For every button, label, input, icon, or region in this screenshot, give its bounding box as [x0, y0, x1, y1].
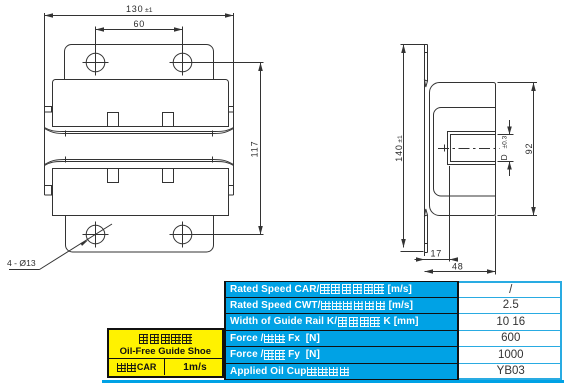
table header row 4 [224, 331, 459, 348]
side tab lower-left [45, 186, 52, 196]
yellow merged cell [109, 330, 222, 360]
liner upper lip line [45, 128, 234, 132]
svg-text:92: 92 [524, 143, 534, 155]
backplate top end [425, 45, 428, 53]
svg-text:17: 17 [431, 249, 443, 259]
backplate bottom chamfer [425, 209, 428, 216]
svg-text:60: 60 [134, 19, 146, 29]
lower body block [53, 169, 229, 216]
extension line 48 right (body edge extended) [495, 216, 497, 275]
tick marks lower flange [65, 157, 67, 163]
table value row 5 [459, 347, 563, 364]
backplate left edge [424, 45, 426, 257]
dimension 48 line [425, 271, 496, 273]
lower block tab 2 [163, 169, 174, 183]
upper block tab 1 [108, 113, 119, 127]
backplate bottom end [425, 244, 428, 253]
dimension 60 arrows [96, 27, 183, 32]
extension 92 top [498, 82, 538, 84]
table header row 5 [224, 347, 459, 364]
dimension 92 line [533, 83, 535, 216]
dimension 140 line [403, 45, 405, 248]
bottom mounting plate [66, 216, 214, 253]
shoe body [430, 83, 496, 216]
table header row 6 [224, 364, 459, 381]
table header row 1 [224, 281, 459, 298]
svg-text:4 - Ø13: 4 - Ø13 [7, 258, 36, 268]
side tab upper-right [229, 107, 234, 113]
hole bottom-right [173, 225, 192, 244]
svg-text:140: 140 [394, 144, 404, 161]
svg-text:±1: ±1 [397, 135, 404, 143]
dimension 60 line [96, 29, 183, 31]
dim D ext top arrow [509, 120, 511, 135]
side tab upper-left [45, 107, 52, 113]
svg-text:117: 117 [250, 141, 260, 158]
dimension 48 arrows [425, 269, 496, 274]
dimension 117 arrows [258, 63, 263, 235]
extension 92 bottom (body bottom extended) [498, 215, 538, 217]
liner lower lip line [45, 162, 234, 166]
slot inner [451, 135, 496, 162]
leader from top-right hole to 117 dim [183, 62, 264, 64]
dimension 117 line [260, 63, 262, 235]
dimension 92 arrows [531, 83, 536, 216]
leader 4-d13 underline [9, 269, 40, 271]
table value row 2 [459, 298, 563, 315]
leader from bottom-right hole to 117 dim [183, 234, 264, 236]
liner C outer [434, 108, 496, 197]
svg-text:D: D [499, 154, 509, 160]
hole top-right [173, 53, 192, 72]
table value row 6 [459, 364, 563, 381]
leader 4-d13 arrow [80, 240, 88, 246]
top mounting plate [65, 45, 214, 80]
svg-text:±0.3: ±0.3 [502, 135, 509, 148]
backplate right edge bottom segment [427, 216, 429, 253]
upper body block [53, 80, 229, 127]
dim D ext bottom arrow [509, 162, 511, 177]
table header row 3 [224, 314, 459, 331]
hole centerline extensions from 60 dim [95, 27, 97, 76]
extension top 140 [401, 44, 425, 46]
liner lower edge line [45, 160, 234, 165]
table value row 3 [459, 314, 563, 331]
table value row 4 [459, 331, 563, 348]
right outer edge / extension line [233, 13, 235, 195]
yellow cell CAR [109, 359, 165, 375]
left outer edge / extension line [44, 13, 46, 195]
centerline cross tick [444, 145, 446, 152]
upper block tab 2 [163, 113, 174, 127]
leader 4-d13 [40, 224, 113, 270]
hole top-left [86, 53, 105, 72]
extension bottom 140 [401, 251, 424, 253]
svg-text:48: 48 [452, 262, 464, 272]
hole bottom-left [86, 225, 105, 244]
dimension 17 line with outside arrows [415, 259, 458, 261]
table header row 2 [224, 298, 459, 315]
lower block tab 1 [108, 169, 119, 183]
liner upper edge line [45, 129, 234, 134]
bottom cyan strip [102, 380, 564, 383]
dimension 130 arrows [45, 13, 234, 18]
backplate right edge top segment [427, 45, 429, 82]
yellow cell 1m/s [165, 359, 226, 375]
side tab lower-right [229, 186, 234, 196]
backplate top chamfer [425, 80, 428, 87]
centerline dash-dot [438, 148, 500, 150]
tick marks upper flange [65, 131, 67, 137]
svg-text:±1: ±1 [145, 7, 153, 14]
yellow table [107, 328, 224, 378]
slot outer [448, 132, 496, 165]
dim D extension lines [498, 134, 514, 136]
table value row 1 [459, 281, 563, 298]
dimension 140 arrows [401, 45, 406, 248]
extension line 17 right [449, 166, 451, 262]
svg-text:130: 130 [126, 4, 143, 14]
dimension 130 +/-1 line [45, 15, 234, 17]
